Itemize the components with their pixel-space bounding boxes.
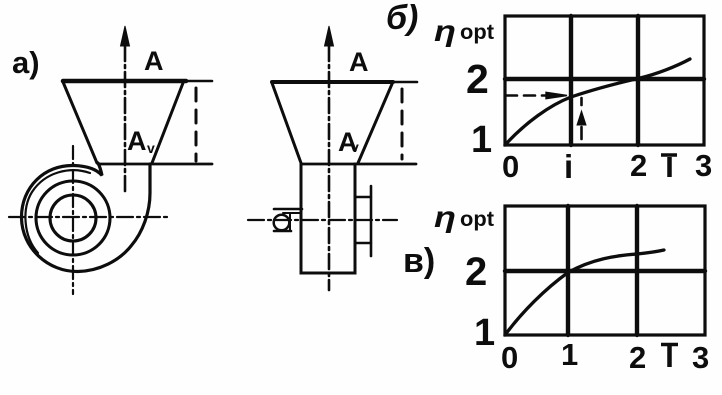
svg-text:1: 1 — [561, 337, 578, 372]
svg-text:б): б) — [386, 0, 418, 37]
svg-text:0: 0 — [502, 149, 519, 184]
svg-text:3: 3 — [692, 340, 709, 375]
svg-text:2: 2 — [630, 148, 647, 183]
svg-text:a): a) — [12, 45, 40, 80]
svg-text:A: A — [127, 126, 147, 156]
svg-text:0: 0 — [501, 340, 518, 375]
svg-text:opt: opt — [460, 208, 494, 231]
svg-text:1: 1 — [474, 312, 495, 354]
svg-text:η: η — [434, 201, 456, 234]
svg-text:v: v — [147, 140, 155, 156]
svg-text:A: A — [144, 46, 164, 76]
svg-text:2: 2 — [629, 340, 646, 375]
svg-text:1: 1 — [471, 119, 492, 161]
svg-text:A: A — [349, 47, 369, 77]
svg-text:2: 2 — [466, 56, 489, 102]
svg-text:v: v — [351, 139, 359, 155]
svg-text:η: η — [434, 15, 456, 48]
svg-text:в): в) — [403, 242, 435, 280]
svg-text:i: i — [564, 148, 573, 185]
svg-text:3: 3 — [695, 148, 712, 183]
svg-text:2: 2 — [465, 250, 487, 294]
svg-text:opt: opt — [460, 21, 494, 44]
